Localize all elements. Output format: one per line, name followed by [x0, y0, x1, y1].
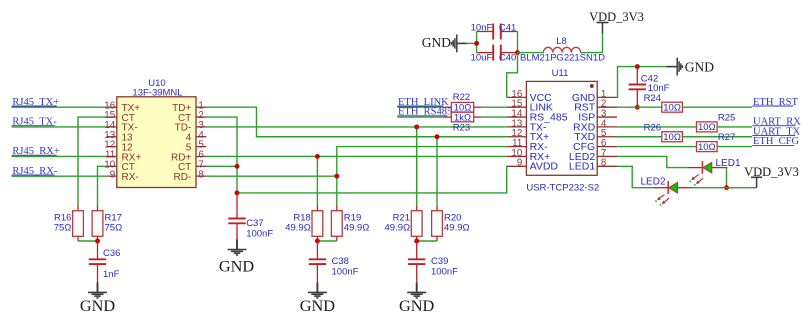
junction LED1/VDD rail	[724, 185, 729, 190]
wire RD- (U10 p8) to R19 column	[206, 175, 337, 177]
junction GND/caps	[474, 41, 479, 46]
wire R27 to ETH_CFG	[717, 146, 752, 148]
wire ETH_LINK to R22	[397, 106, 444, 108]
wire R26 to UART_TX	[682, 136, 752, 138]
wire U10 pin15 CT to R16	[78, 117, 106, 205]
ground below C37	[236, 240, 238, 250]
svg-text:C39: C39	[431, 256, 448, 267]
svg-text:R24: R24	[644, 93, 661, 104]
resistor R20	[436, 205, 438, 211]
svg-text:C40: C40	[499, 52, 516, 63]
junction C42/RST	[635, 105, 640, 110]
U11 pin 13 (TX-) left	[507, 126, 527, 128]
wire U11 p7 to LED1	[617, 156, 688, 167]
svg-text:10Ω: 10Ω	[698, 142, 716, 153]
wire R16 bottom jog to R17	[78, 240, 98, 242]
wire L8 to VDD	[581, 34, 603, 53]
capacitor C38	[316, 241, 318, 259]
U10 pin 8 (RD-) right	[196, 175, 206, 177]
svg-text:LED2: LED2	[641, 177, 666, 188]
svg-text:C36: C36	[103, 248, 120, 259]
wire R19 bottom jog to R18	[317, 240, 336, 242]
resistor R21	[416, 205, 418, 211]
junction R18/R19/C38	[315, 239, 320, 244]
U10 pin 14 (TX-) left	[106, 126, 116, 128]
wire R24 to ETH_RST	[682, 106, 752, 108]
capacitor C39	[416, 241, 418, 259]
wire R25 to UART_RX	[717, 126, 752, 128]
resistor R26 10ohm	[662, 132, 683, 142]
capacitor C40 10uF	[477, 52, 494, 54]
svg-text:BLM21PG221SN1D: BLM21PG221SN1D	[520, 52, 605, 63]
U11 pin 15 (LINK) left	[507, 106, 527, 108]
wire U11 p8 to LED2	[617, 166, 655, 187]
svg-text:10Ω: 10Ω	[663, 103, 681, 114]
svg-text:10uF: 10uF	[471, 52, 493, 63]
U11 pin1 marker dot	[590, 84, 594, 88]
svg-text:R26: R26	[644, 122, 661, 133]
U10 pin 5 (5) right	[196, 146, 206, 148]
wire LED1 anode down	[726, 168, 728, 188]
U10 pin 11 (RX+) left	[106, 155, 116, 157]
svg-text:R22: R22	[453, 92, 470, 103]
svg-text:8: 8	[198, 169, 204, 180]
svg-text:49.9Ω: 49.9Ω	[285, 222, 311, 233]
svg-text:VDD_3V3: VDD_3V3	[744, 165, 799, 179]
U10 pin 15 (CT) left	[106, 116, 116, 118]
power port VDD_3V3 top	[597, 22, 609, 24]
wire ETH_RS485 to R23	[397, 116, 444, 118]
wire LED2 anode to VDD	[693, 187, 756, 189]
svg-text:GND: GND	[685, 60, 714, 75]
U11 pin 9 (AVDD) left	[507, 165, 527, 167]
U10 pin 9 (RX-) left	[106, 175, 116, 177]
wire node to L8	[518, 52, 544, 54]
IC U10 13F-39MNL body	[117, 97, 196, 188]
svg-text:C41: C41	[499, 23, 516, 34]
U11 pin 12 (TX+) left	[507, 136, 527, 138]
U10 pin 10 (CT) left	[106, 165, 116, 167]
resistor R19	[336, 205, 338, 211]
svg-text:10Ω: 10Ω	[698, 122, 716, 133]
svg-text:10Ω: 10Ω	[663, 132, 681, 143]
U10 pin 13 (13) left	[106, 136, 116, 138]
resistor R22 10ohm	[444, 106, 451, 108]
svg-text:USR-TCP232-S2: USR-TCP232-S2	[526, 182, 599, 193]
wire left cap vertical	[476, 32, 478, 53]
svg-text:10nF: 10nF	[471, 23, 493, 34]
ground below C39	[416, 282, 418, 292]
svg-text:GND: GND	[399, 296, 435, 315]
U11 pin 1 (GND) right	[597, 96, 617, 98]
wire U11 p2 RST to R24	[617, 106, 662, 108]
wire RJ45_TX- to U10 pin14	[12, 126, 107, 128]
svg-text:8: 8	[601, 158, 607, 169]
wire TD- to TX- (U10 p3 to U11 p13)	[206, 126, 507, 128]
wire R18 column	[316, 156, 318, 205]
svg-text:RD-: RD-	[174, 172, 192, 183]
svg-text:100nF: 100nF	[246, 228, 273, 239]
LED LED2	[667, 181, 669, 194]
junction R21 top	[414, 124, 419, 129]
svg-text:U11: U11	[552, 68, 569, 79]
U10 pin 4 (4) right	[196, 136, 206, 138]
junction C42 top	[635, 64, 640, 69]
resistor R16	[77, 205, 79, 211]
wire RJ45_TX+ to U10 pin16	[12, 106, 107, 108]
wire U10 p7 CT to CT vertical	[206, 165, 237, 167]
svg-text:49.9Ω: 49.9Ω	[344, 222, 370, 233]
junction R16/R17/C36	[95, 239, 100, 244]
svg-text:R23: R23	[453, 123, 470, 134]
svg-text:9: 9	[517, 158, 522, 169]
svg-text:AVDD: AVDD	[530, 161, 559, 173]
svg-text:75Ω: 75Ω	[105, 222, 123, 233]
svg-text:C38: C38	[332, 256, 349, 267]
capacitor C41 10nF	[477, 31, 494, 33]
wire VCC drop to U11 pin16	[507, 53, 518, 98]
svg-text:1kΩ: 1kΩ	[454, 112, 471, 123]
junction CT/AVDD C37	[235, 190, 240, 195]
capacitor C36	[97, 241, 99, 259]
junction R20/R21/C39	[414, 239, 419, 244]
junction R19 / RD-	[334, 174, 339, 179]
junction caps/L8/VCC	[515, 50, 520, 55]
wire R23 to U11 p14	[481, 116, 507, 118]
U10 pin 12 (12) left	[106, 146, 116, 148]
resistor R24 10ohm	[662, 102, 683, 112]
svg-text:GND: GND	[300, 296, 336, 315]
svg-text:100nF: 100nF	[332, 267, 359, 278]
svg-text:LED1: LED1	[569, 161, 595, 173]
resistor R27 10ohm	[697, 142, 718, 152]
inductor L8 BLM21PG221SN1D	[544, 47, 581, 52]
wire TD+ to TX+ (U10 p1 to U11 p12)	[206, 107, 507, 137]
resistor R18	[316, 205, 318, 211]
wire U11 p4 RXD to R25	[617, 126, 697, 128]
wire CT vertical (U10 p2)	[206, 117, 237, 193]
svg-text:1nF: 1nF	[103, 269, 120, 280]
svg-text:100nF: 100nF	[431, 267, 458, 278]
wire GND to cap node	[458, 42, 468, 44]
junction R18 top	[315, 154, 320, 159]
svg-text:VDD_3V3: VDD_3V3	[589, 10, 644, 24]
svg-text:LED1: LED1	[716, 158, 741, 169]
resistor R25 10ohm	[697, 122, 718, 132]
U11 pin 3 (ISP) right	[597, 116, 617, 118]
wire U11 p1 GND up	[617, 67, 667, 98]
resistor R17	[97, 205, 99, 211]
junction R20 top	[435, 134, 440, 139]
U11 pin 8 (LED1) right	[597, 165, 617, 167]
LED LED1	[701, 161, 703, 174]
U11 pin 7 (LED2) right	[597, 155, 617, 157]
U10 pin 2 (CT) right	[196, 116, 206, 118]
U11 pin 2 (RST) right	[597, 106, 617, 108]
resistor R23 1kohm	[444, 116, 451, 118]
wire RD+ to RX+ (U10 p6 to U11 p10)	[206, 155, 507, 157]
svg-text:R25: R25	[718, 113, 735, 124]
svg-text:GND: GND	[80, 296, 116, 315]
wire U11 p5 TXD to R26	[617, 136, 662, 138]
ground below C36	[97, 282, 99, 292]
wire R19 column up to U11 p11 RX-	[337, 147, 507, 206]
ground below C38	[316, 282, 318, 292]
U10 pin 7 (CT) right	[196, 165, 206, 167]
wire R22 to U11 p15	[481, 106, 507, 108]
svg-text:49.9Ω: 49.9Ω	[385, 222, 411, 233]
U11 pin 11 (RX-) left	[507, 146, 527, 148]
U11 pin 4 (RXD) right	[597, 126, 617, 128]
svg-text:13F-39MNL: 13F-39MNL	[132, 87, 182, 98]
svg-text:49.9Ω: 49.9Ω	[444, 222, 470, 233]
U11 pin 16 (VCC) left	[507, 96, 527, 98]
wire R20 bottom jog to R21	[417, 240, 437, 242]
U10 pin 3 (TD-) right	[196, 126, 206, 128]
wire right cap vertical	[517, 32, 519, 53]
svg-text:GND: GND	[219, 257, 255, 276]
svg-text:R27: R27	[718, 132, 735, 143]
junction CT/p7	[235, 164, 240, 169]
svg-text:GND: GND	[422, 35, 451, 50]
power port VDD_3V3 bottom	[751, 176, 762, 178]
U11 pin 10 (RX+) left	[507, 155, 527, 157]
capacitor C42 10nF	[636, 67, 638, 85]
U10 pin 6 (RD+) right	[196, 155, 206, 157]
wire RJ45_RX+ to U10 pin11	[12, 155, 107, 157]
svg-text:9: 9	[110, 169, 115, 180]
capacitor C37	[236, 193, 238, 218]
wire AVDD rail (C37/CT to U11 p9)	[237, 166, 507, 193]
wire RJ45_RX- to U10 pin9	[12, 175, 107, 177]
wire U10 pin10 CT to R17	[98, 166, 107, 205]
svg-text:RX-: RX-	[122, 172, 139, 183]
U11 pin 6 (CFG) right	[597, 146, 617, 148]
U10 pin 16 (TX+) left	[106, 106, 116, 108]
wire U11 p6 CFG to R27	[617, 146, 697, 148]
U11 pin 5 (TXD) right	[597, 136, 617, 138]
U11 pin 14 (RS_485) left	[507, 116, 527, 118]
svg-text:L8: L8	[556, 36, 567, 47]
IC U11 USR-TCP232-S2 body	[526, 81, 597, 175]
U10 pin 1 (TD+) right	[196, 106, 206, 108]
svg-text:75Ω: 75Ω	[54, 222, 72, 233]
wire R21 column	[416, 127, 418, 205]
wire R20 column	[436, 137, 438, 205]
ground right of C42	[667, 66, 678, 68]
